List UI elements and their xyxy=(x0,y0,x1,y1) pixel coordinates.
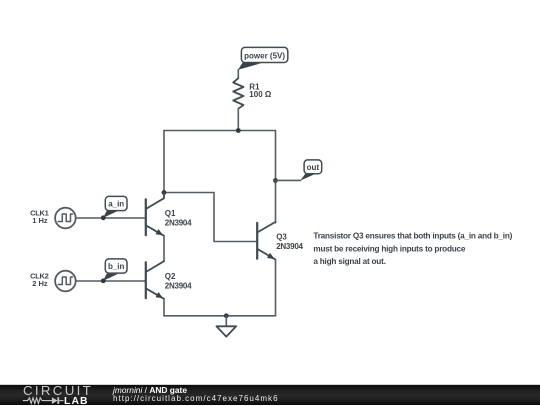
svg-text:Transistor Q3 ensures that bot: Transistor Q3 ensures that both inputs (… xyxy=(313,232,512,241)
resistor R1 xyxy=(233,78,272,109)
transistor Q1 2N3904 xyxy=(146,193,192,236)
wire power lead xyxy=(237,70,239,79)
footer bar xyxy=(0,384,540,405)
wire CLK2 to Q2 base xyxy=(76,280,146,282)
wire Q2 emitter to bottom rail xyxy=(163,299,165,316)
node Q1 collector junction xyxy=(162,190,167,195)
svg-text:2 Hz: 2 Hz xyxy=(32,279,48,288)
wire top rail xyxy=(164,130,276,132)
wire ground stem xyxy=(225,316,227,327)
clock source CLK2 xyxy=(30,271,76,292)
svg-text:a_in: a_in xyxy=(108,199,124,208)
svg-text:b_in: b_in xyxy=(108,262,125,271)
svg-text:Q2: Q2 xyxy=(165,272,176,281)
transistor Q3 2N3904 xyxy=(257,222,303,260)
wire right drop to Q3 collector xyxy=(275,131,277,223)
annotation text xyxy=(313,232,512,266)
svg-text:100 Ω: 100 Ω xyxy=(249,90,272,99)
wire Q3 emitter to bottom rail xyxy=(275,260,277,316)
logo diode xyxy=(52,397,58,404)
node ground junction xyxy=(224,313,229,318)
wire bottom rail xyxy=(164,315,276,317)
svg-text:2N3904: 2N3904 xyxy=(165,281,192,290)
svg-text:Q3: Q3 xyxy=(276,233,287,242)
svg-text:2N3904: 2N3904 xyxy=(276,242,303,251)
label power (5V) xyxy=(238,47,288,69)
label out xyxy=(300,160,321,181)
wire Q1 collector to Q3 base xyxy=(164,193,257,242)
ground xyxy=(216,326,236,336)
label a_in xyxy=(101,196,127,220)
svg-text:Q1: Q1 xyxy=(165,209,176,218)
wire Q1 emitter to Q2 collector xyxy=(163,236,165,261)
logo waveform xyxy=(23,398,52,404)
svg-text:out: out xyxy=(307,163,320,172)
CircuitLab logo xyxy=(23,383,93,398)
label b_in xyxy=(101,259,127,283)
footer credit line xyxy=(113,385,187,395)
svg-text:must be receiving high inputs: must be receiving high inputs to produce xyxy=(313,244,465,253)
wire left drop to Q1 collector xyxy=(163,131,165,193)
wire out stub xyxy=(276,179,301,181)
wire CLK1 to Q1 base xyxy=(76,217,146,219)
svg-text:2N3904: 2N3904 xyxy=(165,218,192,227)
node R1-rail junction xyxy=(236,128,241,133)
node out junction xyxy=(273,178,278,183)
footer url line xyxy=(113,394,279,403)
clock source CLK1 xyxy=(30,208,76,229)
transistor Q2 2N3904 xyxy=(146,261,192,299)
svg-text:1 Hz: 1 Hz xyxy=(32,216,48,225)
svg-text:a high signal at out.: a high signal at out. xyxy=(313,257,385,266)
wire R1 bottom lead xyxy=(237,109,239,131)
svg-text:power (5V): power (5V) xyxy=(244,52,285,61)
